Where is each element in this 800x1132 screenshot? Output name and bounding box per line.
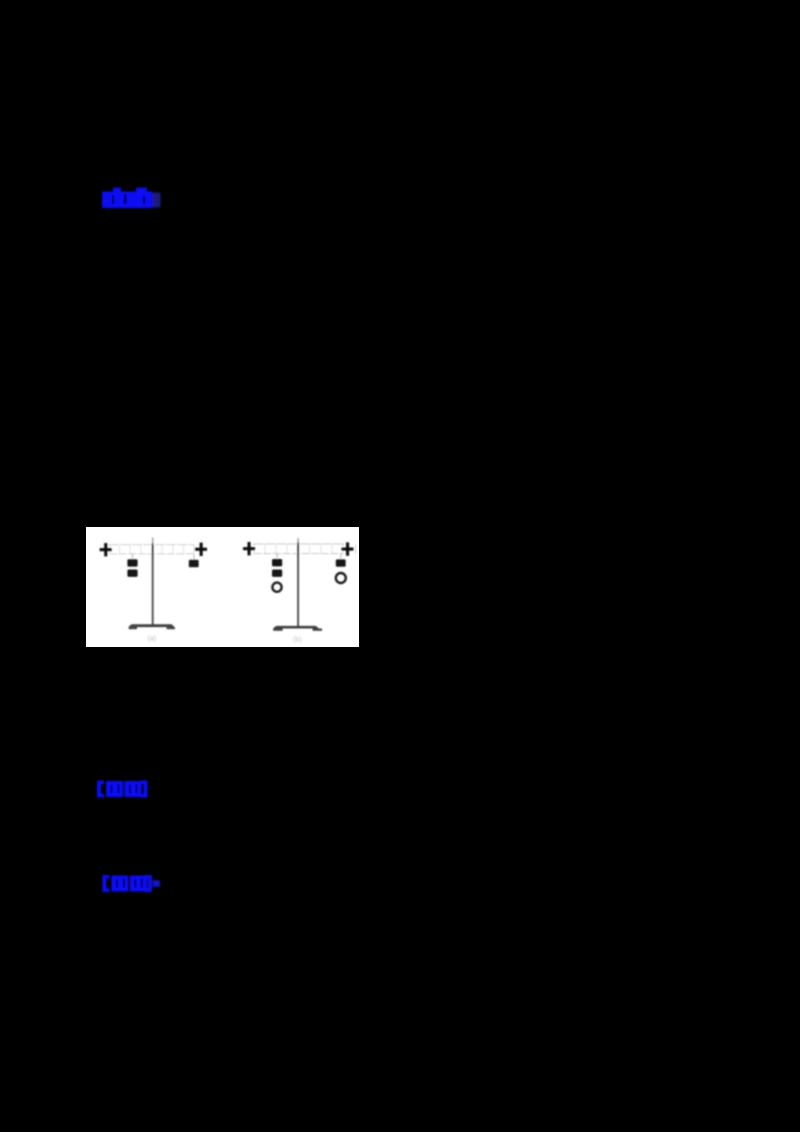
balancing nut right (b) bbox=[342, 542, 354, 555]
hook line left (a) bbox=[132, 554, 134, 560]
stand pole (a) bbox=[152, 554, 154, 625]
fulcrum pivot tick (a) bbox=[152, 543, 154, 556]
balancing nut left (a) bbox=[100, 543, 112, 556]
hook line left (b) bbox=[276, 554, 278, 559]
stand pole (b) bbox=[297, 554, 299, 627]
hook line right (a) bbox=[193, 554, 195, 560]
fulcrum pivot tick (b) bbox=[297, 542, 299, 556]
beam (b) outline bbox=[254, 544, 344, 554]
weight right (a) bbox=[189, 560, 199, 568]
beam (a) outline bbox=[109, 545, 194, 554]
beam ticks (b) bbox=[265, 544, 332, 554]
weights left (a) two hooked masses bbox=[127, 559, 137, 577]
hook line right (b) bbox=[340, 554, 342, 560]
svg-text:(a): (a) bbox=[148, 635, 157, 642]
blue marker 3 (【解答】 glyphs with dash) bbox=[102, 875, 160, 892]
stand base (a) bbox=[128, 624, 174, 627]
svg-text:(b): (b) bbox=[293, 637, 302, 644]
beam ticks (a) bbox=[120, 545, 184, 554]
pointer (b) bbox=[297, 538, 299, 544]
weight right (b) bbox=[336, 559, 346, 566]
weights left (b) two hooked masses bbox=[272, 559, 282, 577]
beam end mark right of nut (b) bbox=[355, 545, 357, 554]
ring left (b) bbox=[272, 583, 281, 592]
balancing nut right (a) bbox=[195, 543, 207, 556]
blue marker 1 (【解析】 blob) bbox=[102, 188, 161, 209]
stand base (b) bbox=[273, 626, 319, 629]
balancing nut left (b) bbox=[243, 542, 255, 555]
blue marker 2 (【分析】 glyphs) bbox=[97, 781, 148, 798]
ring right (b) bbox=[336, 573, 346, 583]
blue dash after marker 3 bbox=[153, 880, 160, 887]
white figure panel bbox=[86, 527, 359, 647]
pointer (a) bbox=[152, 538, 154, 545]
